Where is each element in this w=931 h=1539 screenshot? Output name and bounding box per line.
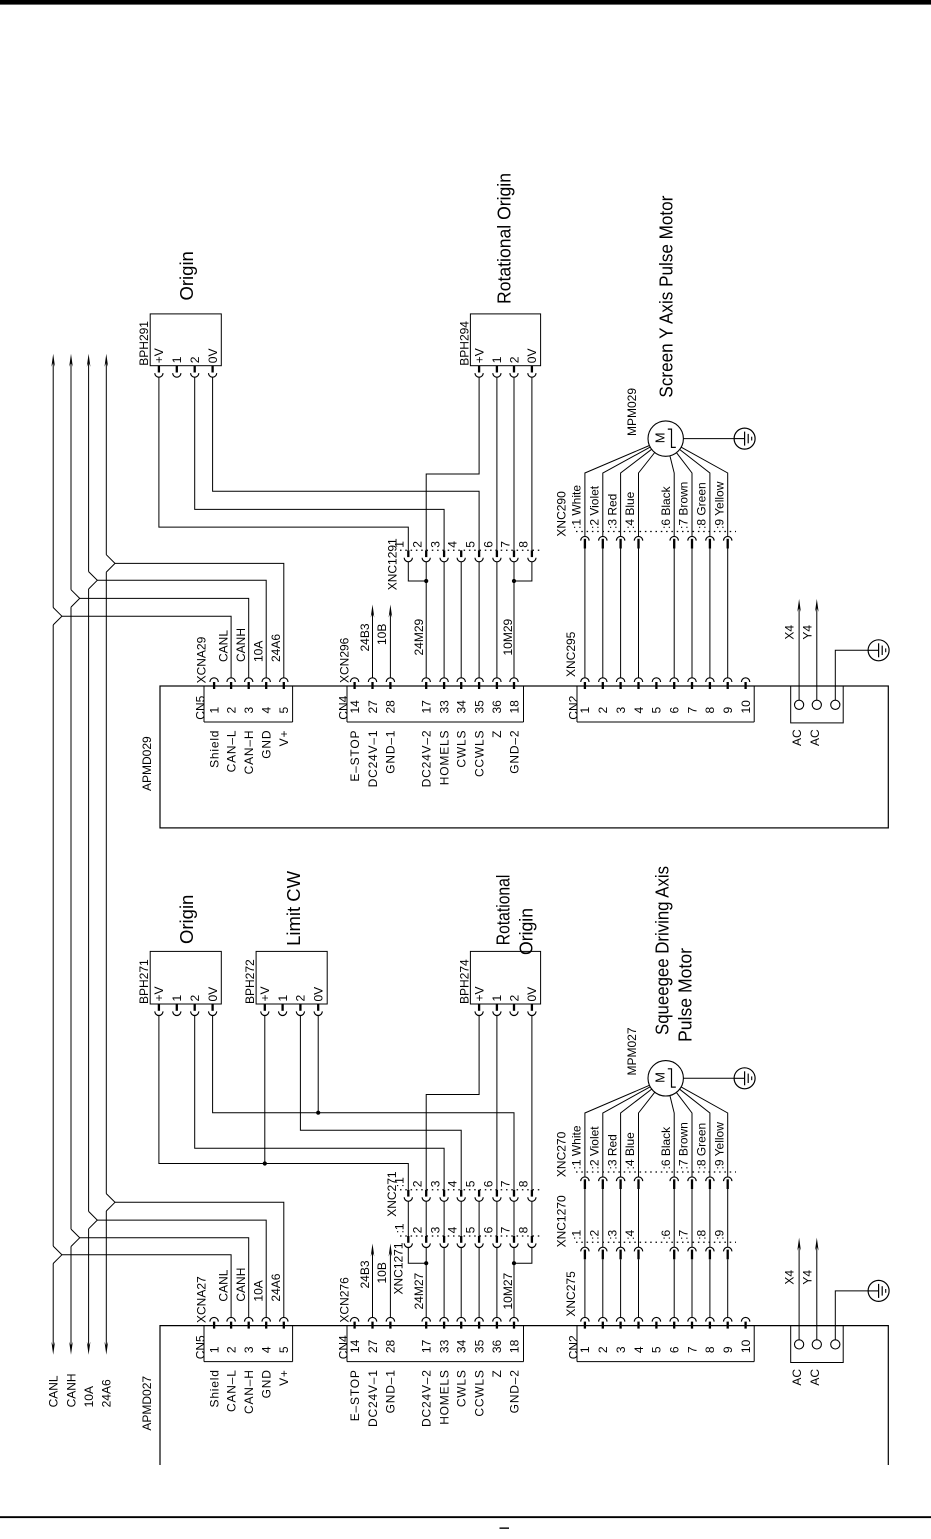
pin XNC1291-3	[443, 550, 445, 557]
wire 24A6 tap to CN5	[115, 563, 284, 677]
wire XNC1291-7 to CN4	[513, 562, 515, 678]
wire XNC270 to XNC1270	[727, 1189, 729, 1247]
svg-text::9 Yellow: :9 Yellow	[712, 1122, 726, 1170]
svg-text:1: 1	[170, 995, 184, 1002]
wire CANH tap to CN5	[80, 598, 249, 677]
pin XNC1271-6	[496, 1236, 498, 1243]
svg-text:24A6: 24A6	[269, 1273, 283, 1301]
svg-text:M: M	[652, 432, 667, 443]
wire motor fan to XNC290-3	[621, 449, 652, 536]
svg-text:AC: AC	[808, 1369, 822, 1386]
svg-text:Screen Y Axis Pulse Motor: Screen Y Axis Pulse Motor	[656, 196, 677, 398]
svg-text:24B3: 24B3	[358, 1260, 372, 1288]
connector row XNC290 dotted line	[576, 531, 736, 533]
connector row XNC1291 dotted line	[400, 549, 540, 551]
pin XNC290-9	[724, 536, 732, 540]
pin CN2-1	[581, 678, 589, 682]
pin XNC290-1	[581, 536, 589, 540]
svg-text:4: 4	[446, 541, 460, 548]
svg-text:XCNA27: XCNA27	[195, 1276, 209, 1323]
pin XNC1270-1	[581, 1247, 589, 1251]
svg-text::7 Brown: :7 Brown	[677, 1122, 691, 1169]
svg-text:10B: 10B	[375, 1262, 389, 1283]
wire XNC1291-2 to CN4	[425, 562, 427, 678]
wire XNC1291-6 to CN4	[496, 562, 498, 678]
svg-text:1: 1	[578, 707, 592, 714]
svg-text:MPM027: MPM027	[625, 1027, 639, 1075]
svg-text:V+: V+	[277, 1369, 291, 1386]
svg-text:17: 17	[420, 1339, 434, 1353]
wire X4	[798, 607, 800, 700]
pin XNC270-1	[581, 1177, 589, 1181]
wire XNC271-6 to XNC1271-6	[496, 1201, 498, 1236]
svg-text:3: 3	[242, 707, 256, 714]
BPH271 pin +V	[158, 1004, 160, 1011]
pin CN2-8	[706, 678, 714, 682]
svg-text:8: 8	[703, 707, 717, 714]
svg-text:GND–2: GND–2	[507, 1369, 521, 1413]
wire motor fan to XNC290-1	[585, 446, 650, 537]
svg-text:Shield: Shield	[207, 1369, 221, 1407]
wire XNC270 to XNC1270	[638, 1189, 640, 1247]
svg-text:1: 1	[578, 1346, 592, 1353]
pin XNC1270-2	[599, 1247, 607, 1251]
pin CN2-6	[670, 1317, 678, 1321]
svg-text::1: :1	[393, 1223, 407, 1233]
bus line CANH	[69, 354, 80, 1355]
connector CN4 body (XCN276)	[347, 1326, 524, 1362]
connector CN5 body (XCNA27)	[204, 1326, 293, 1362]
svg-text:5: 5	[464, 1226, 478, 1233]
wire XNC271-5 to XNC1271-5	[478, 1201, 480, 1236]
svg-text::4 Blue: :4 Blue	[623, 1132, 637, 1170]
svg-text:CCWLS: CCWLS	[472, 730, 486, 777]
svg-text:5: 5	[650, 1346, 664, 1353]
pin XNC290-6	[670, 536, 678, 540]
svg-text:10A: 10A	[251, 1280, 265, 1301]
svg-text:4: 4	[446, 1226, 460, 1233]
svg-text:5: 5	[277, 1346, 291, 1353]
wire BPH272 0V joins 0V net	[317, 1016, 319, 1113]
svg-text:GND–2: GND–2	[507, 730, 521, 774]
svg-text:10B: 10B	[375, 624, 389, 645]
connector AC power	[791, 686, 844, 723]
pin XNC271-3	[443, 1190, 445, 1197]
wire XNC271-1 to XNC1271-1	[407, 1201, 409, 1236]
svg-text:6: 6	[481, 1180, 495, 1187]
svg-text:Squeegee Driving Axis: Squeegee Driving Axis	[652, 866, 673, 1035]
svg-text:34: 34	[455, 1339, 469, 1353]
pin CN4-34	[457, 1317, 465, 1321]
pin CN2-9	[724, 678, 732, 682]
svg-text:Z: Z	[490, 730, 504, 738]
svg-text:1: 1	[276, 995, 290, 1002]
pin CN4-33	[440, 678, 448, 682]
pin XNC1271-7	[513, 1236, 515, 1243]
svg-text::1: :1	[570, 1229, 584, 1239]
wire motor fan to XNC290-9	[681, 447, 728, 536]
wire XNC1291-3 to CN4	[443, 562, 445, 678]
svg-text:2: 2	[411, 1226, 425, 1233]
svg-text:4: 4	[260, 707, 274, 714]
wire 10A tap to CN5	[97, 1220, 266, 1317]
wire motor fan to XNC290-4	[639, 453, 655, 537]
AC terminal 3	[831, 700, 840, 709]
pin CN4-36	[493, 1317, 501, 1321]
svg-text:7: 7	[685, 1346, 699, 1353]
arrow X4	[797, 1238, 801, 1251]
pulse motor MPM027	[648, 1061, 683, 1096]
svg-text:APMD027: APMD027	[140, 1376, 154, 1431]
pin CN2-10	[741, 678, 749, 682]
pin XNC1270-9	[724, 1247, 732, 1251]
motor frame ground	[734, 1068, 755, 1089]
wire BPH272 +V joins +V net	[264, 1016, 266, 1164]
svg-text:6: 6	[481, 541, 495, 548]
svg-text:0V: 0V	[525, 349, 539, 364]
wire XNC1291-1 tie to column 2	[408, 562, 426, 581]
wire BPH291 +V to XNC1291-1	[159, 377, 408, 550]
svg-text:10A: 10A	[251, 641, 265, 662]
page number dash	[500, 1527, 510, 1529]
pin XNC1271-5	[478, 1236, 480, 1243]
wire XNC270 to XNC1270	[584, 1189, 586, 1247]
svg-text:HOMELS: HOMELS	[437, 1369, 451, 1424]
protective earth ground	[868, 1280, 889, 1301]
BPH274 pin 2	[513, 1004, 515, 1011]
svg-text:APMD029: APMD029	[140, 736, 154, 791]
svg-text::1 White: :1 White	[570, 1125, 584, 1169]
wire motor fan to XNC270-3	[621, 1089, 652, 1177]
BPH271 pin 1	[176, 1004, 178, 1011]
pin CN2-7	[688, 1317, 696, 1321]
BPH274 pin +V	[478, 1004, 480, 1011]
pin XNC1291-7	[513, 550, 515, 557]
wire XNC1270 to CN2	[638, 1259, 640, 1317]
wire XNC1271-1 tie to column 2	[408, 1248, 426, 1264]
wire BPH274 +V to XNC271-2	[426, 1016, 479, 1190]
wire XNC1270 to CN2	[620, 1259, 622, 1317]
svg-text:2: 2	[507, 995, 521, 1002]
svg-text:2: 2	[224, 707, 238, 714]
BPH291 pin 1	[176, 366, 178, 373]
wire XNC1291-5 to CN4	[478, 562, 480, 678]
svg-text::8: :8	[695, 1229, 709, 1239]
svg-text::8 Green: :8 Green	[695, 482, 709, 529]
arrow 10B	[389, 605, 393, 618]
svg-text:CAN–L: CAN–L	[224, 1369, 238, 1412]
svg-text:CAN–H: CAN–H	[242, 730, 256, 775]
connector CN2 body (XNC275)	[577, 1326, 754, 1362]
sensor box BPH291	[150, 314, 221, 366]
svg-text:36: 36	[490, 1339, 504, 1353]
svg-text:XNC295: XNC295	[564, 631, 578, 677]
wire XNC270 to XNC1270	[620, 1189, 622, 1247]
pin CN5-3	[245, 678, 253, 682]
svg-text:3: 3	[429, 1180, 443, 1187]
wire XNC1270 to CN2	[727, 1259, 729, 1317]
svg-text:5: 5	[277, 707, 291, 714]
svg-text:DC24V–2: DC24V–2	[420, 730, 434, 788]
pin CN4-35	[475, 1317, 483, 1321]
svg-text:XNC275: XNC275	[564, 1271, 578, 1317]
svg-text:0V: 0V	[206, 987, 220, 1002]
junction dot	[316, 1111, 320, 1115]
svg-text:28: 28	[384, 1339, 398, 1353]
AC terminal 2	[812, 1340, 821, 1349]
svg-text:AC: AC	[790, 1369, 804, 1386]
svg-text:4: 4	[446, 1180, 460, 1187]
AC terminal 1	[795, 1340, 804, 1349]
svg-text:24B3: 24B3	[358, 623, 372, 651]
svg-text:CANH: CANH	[234, 628, 248, 662]
pin XNC270-4	[634, 1177, 642, 1181]
BPH272 pin 2	[299, 1004, 301, 1011]
svg-text:9: 9	[721, 707, 735, 714]
BPH291 pin 2	[194, 366, 196, 373]
pin CN4-35	[475, 678, 483, 682]
wire XNC1271-2 to CN4	[425, 1248, 427, 1318]
svg-text:X4: X4	[783, 625, 797, 640]
svg-text:6: 6	[668, 707, 682, 714]
junction dot	[424, 579, 428, 583]
svg-text:1: 1	[490, 995, 504, 1002]
svg-text:Y4: Y4	[800, 625, 814, 640]
svg-text:3: 3	[429, 1226, 443, 1233]
svg-text:MPM029: MPM029	[625, 388, 639, 436]
page footer rule	[0, 1516, 931, 1518]
junction dot	[512, 579, 516, 583]
svg-text:9: 9	[721, 1346, 735, 1353]
svg-text:33: 33	[437, 1339, 451, 1353]
wire XNC1271-7 to CN4	[513, 1248, 515, 1318]
svg-text:Origin: Origin	[516, 908, 537, 955]
svg-text:8: 8	[516, 1180, 530, 1187]
svg-text:Rotational Origin: Rotational Origin	[494, 173, 515, 304]
pin CN5-4	[262, 1317, 270, 1321]
svg-text:2: 2	[507, 356, 521, 363]
AC terminal 1	[795, 700, 804, 709]
BPH294 pin 1	[496, 366, 498, 373]
wire XNC270 to XNC1270	[602, 1189, 604, 1247]
pin XNC271-4	[460, 1190, 462, 1197]
wire XNC1270 to CN2	[584, 1259, 586, 1317]
pin CN2-3	[616, 678, 624, 682]
svg-text:XNC270: XNC270	[554, 1131, 568, 1177]
svg-text:0V: 0V	[312, 987, 326, 1002]
svg-text:8: 8	[516, 541, 530, 548]
pin XNC290-4	[634, 536, 642, 540]
pin CN2-3	[616, 1317, 624, 1321]
svg-text:24M27: 24M27	[412, 1272, 426, 1309]
svg-text::4: :4	[623, 1229, 637, 1239]
sensor box BPH272	[256, 951, 327, 1004]
svg-text:2: 2	[596, 707, 610, 714]
svg-text:XCN296: XCN296	[338, 637, 352, 683]
svg-text:10: 10	[739, 700, 753, 714]
svg-text:GND: GND	[260, 730, 274, 759]
svg-text:GND: GND	[260, 1369, 274, 1398]
wire to 10B	[389, 613, 391, 678]
BPH271 pin 0V	[211, 1004, 213, 1011]
svg-text:CCWLS: CCWLS	[472, 1369, 486, 1416]
svg-text::6 Black: :6 Black	[659, 1126, 673, 1170]
svg-text:CANH: CANH	[234, 1268, 248, 1302]
wire motor fan to XNC290-6	[670, 456, 674, 537]
wire XNC271-7 to XNC1271-7	[513, 1201, 515, 1236]
svg-text:GND–1: GND–1	[384, 1369, 398, 1413]
pin XNC270-9	[724, 1177, 732, 1181]
svg-text:AC: AC	[808, 729, 822, 746]
wire XNC1270 to CN2	[673, 1259, 675, 1317]
svg-text:0V: 0V	[206, 349, 220, 364]
svg-text:24M29: 24M29	[412, 618, 426, 655]
svg-text:1: 1	[207, 1346, 221, 1353]
svg-text:DC24V–1: DC24V–1	[366, 730, 380, 788]
wire X4	[798, 1246, 800, 1340]
protective earth ground	[868, 640, 889, 661]
pin CN4-34	[457, 678, 465, 682]
svg-text:4: 4	[632, 1346, 646, 1353]
svg-text:X4: X4	[783, 1270, 797, 1285]
svg-text:AC: AC	[790, 729, 804, 746]
svg-text:18: 18	[507, 1339, 521, 1353]
svg-text:5: 5	[464, 541, 478, 548]
wire XNC271-8 to XNC1271-8	[531, 1201, 533, 1236]
svg-text::4 Blue: :4 Blue	[623, 491, 637, 529]
wire motor fan to XNC270-9	[681, 1087, 728, 1177]
BPH271 pin 2	[194, 1004, 196, 1011]
pin CN2-7	[688, 678, 696, 682]
BPH272 pin +V	[264, 1004, 266, 1011]
svg-text:36: 36	[490, 700, 504, 714]
svg-text:BPH274: BPH274	[457, 959, 471, 1004]
svg-text:Limit CW: Limit CW	[283, 870, 304, 946]
wire BPH294 2 to XNC1291-7	[513, 377, 515, 550]
pin XNC271-1	[407, 1190, 409, 1197]
svg-text:M: M	[652, 1072, 667, 1083]
connector row XNC1270 dotted line	[576, 1241, 736, 1243]
AC terminal 2	[812, 700, 821, 709]
pin XNC1291-1	[407, 550, 409, 557]
pin XNC270-7	[688, 1177, 696, 1181]
wire BPH294 1 to XNC1291-6	[496, 377, 498, 550]
svg-text:+V: +V	[472, 986, 486, 1001]
svg-text:CANH: CANH	[64, 1373, 78, 1407]
pin XNC1271-8	[531, 1236, 533, 1243]
pin XNC1271-1	[407, 1236, 409, 1243]
arrow 24B3	[371, 605, 375, 618]
svg-text:+V: +V	[152, 348, 166, 363]
svg-text:CN5: CN5	[193, 695, 207, 719]
BPH291 pin +V	[158, 366, 160, 373]
wire XNC271-4 to XNC1271-4	[460, 1201, 462, 1236]
svg-text:6: 6	[668, 1346, 682, 1353]
svg-text:2: 2	[411, 541, 425, 548]
svg-text:DC24V–2: DC24V–2	[420, 1369, 434, 1427]
svg-text:10M29: 10M29	[501, 618, 515, 655]
pin CN2-9	[724, 1317, 732, 1321]
pin CN4-33	[440, 1317, 448, 1321]
BPH294 pin 2	[513, 366, 515, 373]
svg-text::2: :2	[588, 1229, 602, 1239]
pin XNC1271-4	[460, 1236, 462, 1243]
pin XNC1271-2	[425, 1236, 427, 1243]
svg-text:XCN276: XCN276	[338, 1277, 352, 1323]
wire XNC290 to CN2 pin	[638, 549, 640, 678]
wire BPH294 +V to XNC1291-2	[426, 377, 479, 550]
svg-text:24A6: 24A6	[100, 1379, 114, 1407]
svg-text:14: 14	[348, 1339, 362, 1353]
wire XNC1271-5 to CN4	[478, 1248, 480, 1318]
BPH272 pin 1	[281, 1004, 283, 1011]
pin XNC1291-8	[531, 550, 533, 557]
svg-text:CWLS: CWLS	[455, 730, 469, 768]
svg-text:BPH271: BPH271	[137, 959, 151, 1004]
wire XNC1271-8 tie to column 7	[514, 1248, 532, 1264]
connector CN4 body (XCN296)	[347, 686, 524, 722]
wire Y4	[816, 1246, 818, 1340]
bus line CANL	[51, 354, 62, 1355]
bus line 10A	[87, 354, 98, 1355]
sensor box BPH294	[470, 314, 540, 366]
pin XNC271-5	[478, 1190, 480, 1197]
pin XNC290-3	[616, 536, 624, 540]
svg-text:27: 27	[366, 700, 380, 714]
svg-text:2: 2	[411, 1180, 425, 1187]
wire XNC270 to XNC1270	[709, 1189, 711, 1247]
svg-text::9 Yellow: :9 Yellow	[712, 481, 726, 529]
connector row XNC271 dotted line	[400, 1189, 540, 1191]
pin XNC290-7	[688, 536, 696, 540]
pin CN5-3	[245, 1317, 253, 1321]
svg-text::6: :6	[659, 1229, 673, 1239]
wire to protective earth	[835, 1291, 868, 1340]
pin CN5-4	[262, 678, 270, 682]
wire XNC271-3 to XNC1271-3	[443, 1201, 445, 1236]
svg-text:7: 7	[498, 1226, 512, 1233]
svg-text:CANL: CANL	[47, 1375, 61, 1407]
svg-text:8: 8	[703, 1346, 717, 1353]
svg-text:18: 18	[507, 700, 521, 714]
wire motor fan to XNC270-8	[680, 1089, 710, 1177]
pin CN5-5	[280, 1317, 288, 1321]
svg-text:E–STOP: E–STOP	[348, 730, 362, 782]
wire motor fan to XNC270-1	[585, 1085, 650, 1177]
pin CN5-2	[227, 678, 235, 682]
pin CN2-8	[706, 1317, 714, 1321]
wire XNC1291-4 to CN4	[460, 562, 462, 678]
svg-text::3: :3	[605, 1229, 619, 1239]
pin XNC1270-4	[634, 1247, 642, 1251]
wire XNC290 to CN2 pin	[727, 549, 729, 678]
wire 24A6 tap to CN5	[115, 1202, 284, 1317]
pin XNC1270-6	[670, 1247, 678, 1251]
pin XNC271-2	[425, 1190, 427, 1197]
svg-text:3: 3	[614, 707, 628, 714]
wire XNC1270 to CN2	[602, 1259, 604, 1317]
BPH294 pin 0V	[531, 366, 533, 373]
wire BPH274 1 to XNC271-6	[496, 1016, 498, 1190]
connector CN5 body (XCNA29)	[204, 686, 293, 722]
svg-text:10A: 10A	[82, 1386, 96, 1407]
svg-text:V+: V+	[277, 730, 291, 747]
AC terminal 3	[831, 1340, 840, 1349]
svg-text:4: 4	[632, 707, 646, 714]
pin XNC270-3	[616, 1177, 624, 1181]
svg-text:Rotational: Rotational	[493, 875, 514, 946]
wire motor fan to XNC270-7	[676, 1092, 692, 1177]
